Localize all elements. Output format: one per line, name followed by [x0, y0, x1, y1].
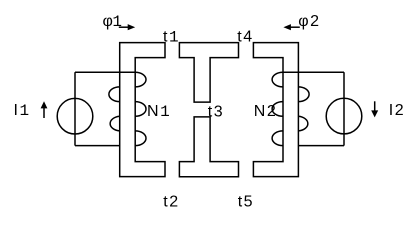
inductor N1 — [109, 72, 146, 145]
current source I1 — [57, 98, 93, 134]
svg-text:φ1: φ1 — [103, 13, 124, 31]
wire left circuit bottom — [75, 145, 120, 147]
core top T-piece — [179, 43, 238, 103]
wire right circuit right vertical — [343, 72, 345, 145]
inductor N2 — [272, 72, 309, 145]
arrow phi2 (left) — [283, 24, 299, 30]
core bottom T-piece — [179, 117, 238, 177]
svg-text:t4: t4 — [237, 29, 253, 46]
wire left circuit top — [75, 71, 135, 73]
svg-text:N1: N1 — [147, 103, 171, 121]
wire right circuit bottom — [298, 145, 344, 147]
svg-text:t1: t1 — [163, 29, 180, 47]
arrow I2 (down) — [371, 101, 378, 117]
arrow phi1 (right) — [119, 24, 135, 30]
svg-text:I2: I2 — [389, 102, 405, 119]
arrow I1 (up) — [41, 101, 48, 118]
svg-text:φ2: φ2 — [298, 13, 320, 30]
svg-text:t3: t3 — [208, 103, 224, 120]
wire left circuit left vertical — [74, 72, 76, 145]
wire right circuit top — [283, 71, 344, 73]
svg-text:I1: I1 — [14, 102, 31, 120]
core right C-leg — [253, 43, 298, 177]
svg-text:N2: N2 — [254, 103, 277, 120]
core left C-leg — [120, 43, 165, 177]
svg-text:t2: t2 — [163, 193, 179, 210]
current source I2 — [326, 98, 362, 134]
svg-text:t5: t5 — [238, 193, 254, 210]
